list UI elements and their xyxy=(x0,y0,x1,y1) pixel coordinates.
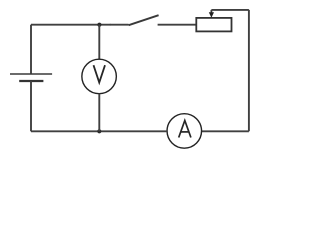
ammeter A xyxy=(167,114,202,149)
wire right vertical xyxy=(248,10,250,131)
battery cell long positive plate xyxy=(10,73,52,75)
node small switch terminal dot xyxy=(109,24,111,26)
rheostat wiper arrow xyxy=(209,10,214,18)
switch S (open blade) xyxy=(129,15,159,25)
wire left vertical upper (to battery) xyxy=(30,25,32,74)
resistor R (rheostat box) xyxy=(196,18,231,32)
voltmeter V xyxy=(82,59,117,94)
wire voltmeter branch lower xyxy=(98,94,100,132)
node bottom junction of voltmeter branch xyxy=(97,129,101,133)
wire bottom right to ammeter xyxy=(202,130,249,132)
wire from wiper to top-right corner xyxy=(211,9,249,11)
wire top from left corner to switch hinge xyxy=(31,24,129,26)
wire bottom from ammeter to bottom-left corner xyxy=(31,130,167,132)
wire voltmeter branch upper xyxy=(98,25,100,60)
battery cell short negative plate xyxy=(19,80,43,82)
node top junction of voltmeter branch xyxy=(97,23,101,27)
wire switch contact to rheostat left terminal xyxy=(158,24,197,26)
wire left vertical lower (battery to bottom corner) xyxy=(30,81,32,131)
